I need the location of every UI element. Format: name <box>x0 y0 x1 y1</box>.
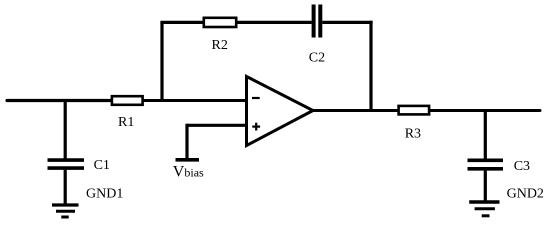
op-amp U1 minus sign <box>252 97 260 99</box>
svg-text:C1: C1 <box>94 158 110 173</box>
resistor R3 <box>399 106 430 115</box>
wire C3 branch vertical <box>484 111 487 159</box>
wire C3 to ground <box>484 171 487 201</box>
capacitor C1 <box>48 160 85 168</box>
wire C1 branch vertical <box>64 101 67 159</box>
wire feedback top left segment <box>160 21 203 24</box>
terminal Vbias bar <box>176 158 200 162</box>
ground GND1 <box>52 205 79 217</box>
capacitor C2 <box>314 5 321 38</box>
capacitor C3 <box>468 160 504 169</box>
svg-text:C2: C2 <box>309 50 325 65</box>
svg-text:R3: R3 <box>405 127 421 142</box>
svg-text:R1: R1 <box>118 115 134 130</box>
wire C2 to corner <box>322 21 372 24</box>
wire Vbias vertical <box>185 124 188 158</box>
op-amp U1 <box>247 77 314 146</box>
wire C1 to ground <box>64 170 67 204</box>
svg-text:GND2: GND2 <box>507 187 544 202</box>
ground GND2 <box>469 202 499 216</box>
wire feedback vertical left <box>160 22 163 100</box>
resistor R1 <box>112 96 143 105</box>
wire op-amp output <box>313 109 398 112</box>
svg-text:R2: R2 <box>212 38 228 53</box>
svg-text:Vbias: Vbias <box>173 164 204 181</box>
wire feedback vertical right <box>369 21 372 111</box>
wire R2 to C2 <box>237 21 312 24</box>
wire R3 to output end <box>430 109 540 112</box>
svg-text:C3: C3 <box>514 159 530 174</box>
svg-text:GND1: GND1 <box>86 187 123 202</box>
wire non-inverting input <box>187 124 247 127</box>
op-amp U1 plus sign <box>252 123 260 131</box>
resistor R2 <box>204 18 236 27</box>
wire input left segment <box>7 99 112 102</box>
wire R1 to op-amp inverting input <box>143 99 247 102</box>
